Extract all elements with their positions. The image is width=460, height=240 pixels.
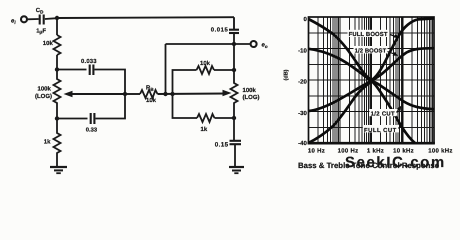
wire node C to resistor RB bbox=[125, 93, 140, 95]
resistor 1k left bbox=[44, 119, 61, 168]
capacitor 0.015 bbox=[211, 26, 239, 33]
svg-text:1 kHz: 1 kHz bbox=[367, 147, 384, 154]
node eo output terminal bbox=[251, 41, 268, 49]
capacitor 0.33 bbox=[86, 113, 98, 134]
ground left bbox=[50, 167, 67, 173]
svg-text:-10: -10 bbox=[298, 48, 307, 55]
node G junction dot bbox=[232, 68, 236, 72]
svg-text:(LOG): (LOG) bbox=[35, 93, 52, 100]
label full cut bbox=[363, 122, 403, 134]
wire feedback vertical bbox=[165, 44, 167, 94]
wiper wire bass pot bbox=[64, 91, 126, 98]
chart major grid decade lines bbox=[309, 17, 435, 143]
chart minor grid horizontal 5dB lines bbox=[309, 33, 435, 128]
svg-text:1k: 1k bbox=[44, 139, 51, 146]
curve half boost bbox=[309, 48, 435, 80]
wiper arrow treble pot bbox=[223, 90, 232, 97]
chart axis frame bbox=[309, 17, 435, 143]
wire capacitor 0.033 to right edge of bass cell bbox=[95, 70, 126, 95]
svg-text:SeekIC.com: SeekIC.com bbox=[345, 155, 446, 171]
svg-text:(LOG): (LOG) bbox=[243, 94, 260, 101]
svg-text:eo: eo bbox=[262, 43, 268, 50]
svg-text:-20: -20 bbox=[298, 79, 307, 86]
svg-text:ei: ei bbox=[11, 19, 16, 26]
wire top rail bbox=[57, 16, 234, 19]
resistor 10k treble bbox=[197, 60, 215, 74]
curve full boost bbox=[309, 18, 435, 80]
wire 10k to node B bbox=[56, 55, 58, 70]
wire output junction to terminal bbox=[234, 43, 251, 45]
potentiometer 100k LOG bass bbox=[35, 70, 61, 119]
wire 1k treble to node H bbox=[215, 117, 235, 119]
label half cut bbox=[370, 106, 402, 118]
wire node A down bbox=[56, 18, 58, 35]
svg-text:100 kHz: 100 kHz bbox=[428, 147, 452, 154]
ground right bbox=[229, 167, 244, 173]
svg-text:1k: 1k bbox=[201, 126, 208, 133]
capacitor CD 1uF bbox=[36, 7, 47, 36]
x axis labels bbox=[308, 147, 453, 154]
svg-text:10k: 10k bbox=[146, 97, 157, 104]
wire node B to capacitor 0.033 bbox=[57, 69, 87, 71]
wire capacitor 0.33 to right edge of bass cell bbox=[96, 94, 126, 119]
svg-text:0.015: 0.015 bbox=[211, 26, 229, 33]
curve full cut bbox=[309, 81, 416, 143]
svg-text:100k: 100k bbox=[38, 86, 52, 93]
svg-text:1μF: 1μF bbox=[36, 29, 46, 36]
svg-text:0.033: 0.033 bbox=[81, 58, 97, 65]
node A junction dot bbox=[55, 16, 59, 20]
svg-text:-40: -40 bbox=[298, 140, 307, 147]
wire treble cell left edge bbox=[173, 70, 197, 94]
capacitor 0.033 bbox=[81, 58, 97, 75]
node B junction dot bbox=[55, 67, 59, 71]
node H junction dot bbox=[232, 116, 236, 120]
resistor 10k left bbox=[43, 35, 61, 55]
svg-text:(dB): (dB) bbox=[283, 69, 289, 80]
node C junction dot bbox=[123, 92, 127, 96]
wire 0.015 to output junction bbox=[233, 34, 235, 70]
wire feedback horizontal to output node bbox=[166, 43, 235, 45]
svg-text:100 Hz: 100 Hz bbox=[338, 147, 359, 154]
wire RB to treble wiper bbox=[158, 93, 227, 96]
resistor 1k treble bbox=[197, 114, 215, 133]
svg-text:10 Hz: 10 Hz bbox=[308, 147, 325, 154]
potentiometer 100k LOG treble bbox=[231, 70, 260, 118]
svg-text:FULL CUT: FULL CUT bbox=[364, 127, 397, 134]
resistor RB 10k bbox=[140, 84, 158, 104]
wire 10k treble to node G bbox=[214, 69, 234, 71]
wire 0.15 to ground bbox=[234, 145, 236, 167]
svg-text:1/2 BOOST: 1/2 BOOST bbox=[355, 48, 387, 55]
node D junction dot bbox=[55, 116, 59, 120]
label half boost bbox=[354, 46, 399, 56]
node J output junction dot bbox=[232, 42, 236, 46]
wire input to capacitor CD bbox=[27, 18, 39, 20]
chart minor grid vertical log lines bbox=[318, 17, 433, 143]
svg-text:0.33: 0.33 bbox=[86, 127, 98, 134]
svg-text:-30: -30 bbox=[298, 110, 307, 117]
svg-text:FULL BOOST: FULL BOOST bbox=[349, 31, 388, 38]
svg-text:10 kHz: 10 kHz bbox=[393, 147, 414, 154]
capacitor 0.15 bbox=[215, 141, 241, 149]
wire capacitor to node A bbox=[45, 17, 57, 20]
wire treble cell left edge lower bbox=[173, 94, 198, 118]
svg-text:0.15: 0.15 bbox=[215, 141, 229, 148]
label full boost bbox=[348, 30, 399, 38]
svg-text:1/2 CUT: 1/2 CUT bbox=[371, 110, 395, 117]
wire top rail corner down bbox=[233, 17, 235, 29]
node ei input terminal bbox=[11, 16, 27, 25]
y axis labels bbox=[298, 16, 307, 147]
wire node H down to capacitor 0.15 bbox=[233, 118, 235, 140]
wire node D to capacitor 0.33 bbox=[57, 118, 88, 120]
node F junction dot bbox=[170, 92, 174, 96]
svg-text:100k: 100k bbox=[243, 87, 257, 94]
curve half cut bbox=[309, 81, 435, 111]
node E junction dot bbox=[163, 92, 167, 96]
